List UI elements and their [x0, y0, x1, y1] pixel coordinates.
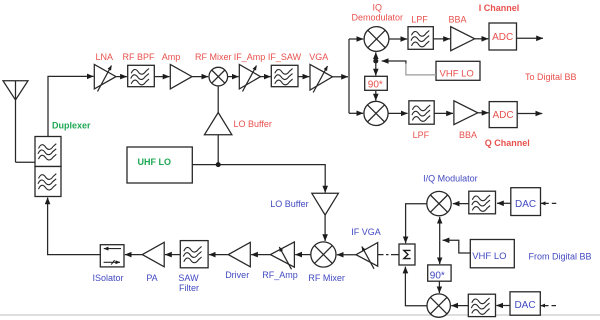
- node junction I demod LO: [373, 59, 378, 64]
- svg-text:Amp: Amp: [162, 52, 181, 62]
- wire junction to 90 box RX: [375, 61, 377, 76]
- phase shifter 90 RX: [365, 76, 388, 90]
- svg-text:SAW: SAW: [178, 273, 199, 283]
- svg-text:LNA: LNA: [96, 52, 114, 62]
- svg-text:I Channel: I Channel: [479, 3, 520, 13]
- amplifier Amp: [162, 52, 192, 89]
- svg-text:RF BPF: RF BPF: [122, 52, 155, 62]
- ADC I: [489, 23, 517, 50]
- svg-text:DAC: DAC: [515, 199, 536, 210]
- wire IF_Amp to IF_SAW: [261, 76, 271, 78]
- wire LNA to RF BPF: [116, 76, 127, 78]
- wire BBA Q to ADC Q: [478, 112, 489, 114]
- wire VHF LO RX to junction: [382, 61, 436, 75]
- buffer LO Buffer RX: [204, 86, 271, 135]
- svg-text:LPF: LPF: [413, 130, 430, 140]
- wire SAW Filter to PA: [165, 254, 180, 256]
- amplifier IF_Amp: [234, 52, 266, 92]
- wire Driver to SAW Filter: [209, 254, 228, 256]
- svg-text:IF VGA: IF VGA: [351, 227, 381, 237]
- amplifier PA: [142, 242, 164, 283]
- filter LPF I: [408, 14, 433, 49]
- wire RF Mixer TX to RF_Amp: [295, 254, 311, 256]
- mixer I/Q modulator I: [423, 174, 478, 216]
- svg-text:90*: 90*: [368, 79, 383, 90]
- amplifier VGA: [309, 52, 332, 93]
- svg-text:ADC: ADC: [492, 32, 513, 43]
- svg-text:Q Channel: Q Channel: [485, 138, 530, 148]
- wire RF Mixer to IF_Amp: [228, 76, 239, 78]
- svg-text:PA: PA: [146, 273, 157, 283]
- buffer LO Buffer TX: [270, 193, 338, 241]
- svg-text:Filter: Filter: [179, 283, 199, 293]
- oscillator VHF LO TX: [470, 240, 514, 268]
- svg-text:BBA: BBA: [448, 14, 466, 24]
- svg-text:BBA: BBA: [459, 130, 477, 140]
- svg-text:VGA: VGA: [309, 52, 328, 62]
- wire I mod mixer LO vertical: [439, 217, 441, 264]
- svg-text:LPF: LPF: [411, 14, 428, 24]
- wire Q mixer to LPF Q: [388, 112, 408, 114]
- DAC I mod: [511, 188, 541, 216]
- filter IF_SAW: [268, 52, 302, 87]
- wire ADC Q output: [517, 113, 542, 115]
- filter LPF Q: [409, 101, 434, 140]
- svg-text:LO Buffer: LO Buffer: [234, 119, 272, 129]
- wire DAC to filter I mod: [497, 202, 511, 204]
- svg-text:VHF LO: VHF LO: [440, 68, 474, 79]
- wire filter to Q mod mixer: [451, 305, 468, 307]
- DAC Q mod: [510, 292, 540, 315]
- mixer I/Q modulator Q: [427, 294, 450, 317]
- filter SAW: [178, 241, 208, 293]
- wire DAC to filter Q mod: [496, 305, 510, 307]
- svg-text:DAC: DAC: [514, 300, 535, 311]
- wire UHF LO output: [192, 135, 325, 193]
- wire LPF Q to BBA Q: [434, 112, 453, 114]
- wire PA to ISolator: [125, 254, 142, 256]
- svg-text:IQ: IQ: [373, 2, 383, 12]
- wire input to DAC Q mod: [541, 305, 556, 307]
- wire IF_SAW to VGA: [298, 76, 309, 78]
- amplifier BBA Q: [454, 101, 478, 140]
- amplifier IF VGA: [351, 227, 381, 269]
- svg-text:VHF LO: VHF LO: [472, 251, 506, 262]
- svg-text:IF_Amp: IF_Amp: [234, 52, 266, 62]
- antenna: [3, 81, 28, 163]
- wire ADC I output: [517, 37, 544, 39]
- wire Q mod mixer to sigma: [405, 267, 427, 306]
- wire I mixer to LPF: [389, 38, 407, 40]
- svg-text:RF Mixer: RF Mixer: [195, 52, 232, 62]
- svg-text:ADC: ADC: [492, 110, 513, 121]
- amplifier RF_Amp: [262, 242, 298, 280]
- svg-text:IF_SAW: IF_SAW: [268, 52, 302, 62]
- wire LPF to BBA I: [433, 38, 450, 40]
- wire VGA to IQ branch: [333, 76, 349, 78]
- mixer IQ demodulator Q: [364, 101, 388, 125]
- ADC Q: [489, 102, 517, 128]
- svg-text:To Digital BB: To Digital BB: [525, 72, 577, 82]
- wire ISolator to duplexer: [48, 198, 101, 255]
- duplexer: [35, 121, 91, 197]
- svg-text:From Digital BB: From Digital BB: [529, 252, 592, 262]
- svg-text:RF_Amp: RF_Amp: [262, 270, 298, 280]
- svg-text:Duplexer: Duplexer: [52, 121, 91, 131]
- mixer RF Mixer RX: [195, 52, 232, 86]
- wire sigma to IF VGA: [378, 254, 399, 256]
- amplifier LNA: [94, 52, 116, 92]
- mixer RF Mixer TX: [308, 242, 345, 283]
- filter Q mod: [468, 294, 495, 316]
- isolator ISolator: [92, 245, 124, 283]
- wire 90 RX to Q mixer: [375, 90, 377, 100]
- node UHF LO branch: [216, 162, 221, 167]
- wire I mod mixer to sigma: [406, 204, 427, 243]
- filter RF BPF: [122, 52, 155, 87]
- summer sigma: [399, 244, 415, 265]
- wire Amp to RF Mixer: [192, 76, 208, 78]
- svg-text:RF Mixer: RF Mixer: [308, 273, 345, 283]
- oscillator UHF LO: [127, 147, 192, 183]
- svg-text:LO Buffer: LO Buffer: [270, 199, 308, 209]
- oscillator VHF LO RX: [436, 61, 480, 80]
- wire input to DAC I mod: [541, 202, 556, 204]
- wire RF BPF to Amp: [154, 76, 169, 78]
- svg-text:Demodulator: Demodulator: [352, 13, 404, 23]
- wire 90 TX to Q mod mixer: [438, 281, 440, 293]
- svg-text:UHF LO: UHF LO: [138, 157, 172, 167]
- amplifier Driver: [225, 242, 250, 279]
- svg-text:Driver: Driver: [225, 270, 249, 280]
- wire BBA to ADC I: [475, 38, 489, 40]
- filter I mod: [469, 191, 496, 214]
- wire duplexer to LNA: [48, 76, 94, 136]
- wire IF VGA to RF Mixer TX: [337, 254, 356, 256]
- wire RF_Amp to Driver: [251, 254, 270, 256]
- amplifier BBA I: [448, 14, 474, 50]
- svg-text:I/Q Modulator: I/Q Modulator: [423, 174, 478, 184]
- svg-text:ISolator: ISolator: [92, 273, 123, 283]
- wire VHF LO TX to junction: [443, 240, 471, 253]
- wire junction to I mixer: [375, 52, 377, 61]
- wire IQ branch vertical: [349, 39, 363, 113]
- wire antenna to duplexer: [16, 161, 36, 163]
- wire filter to I mod mixer: [453, 203, 469, 205]
- svg-text:90*: 90*: [430, 270, 445, 281]
- mixer IQ demodulator I: [352, 2, 404, 51]
- phase shifter 90 TX: [428, 265, 451, 282]
